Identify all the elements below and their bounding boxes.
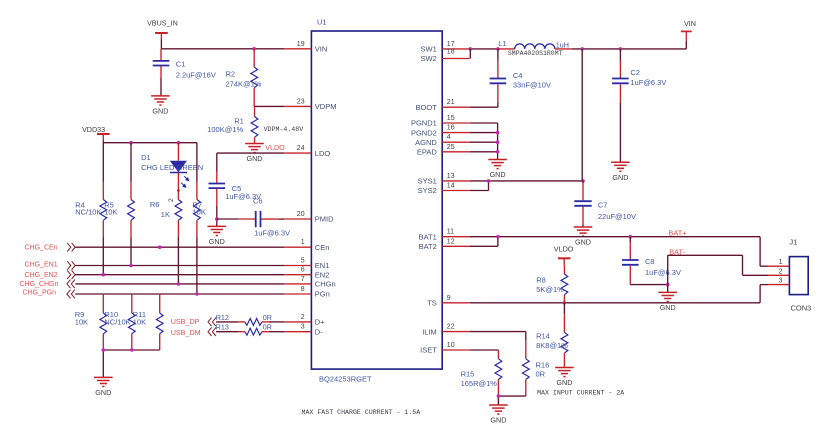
svg-text:NC/10K: NC/10K xyxy=(75,208,101,217)
svg-text:8K8@1%: 8K8@1% xyxy=(536,341,568,350)
net label BAT+ xyxy=(668,228,686,237)
node junction AGND xyxy=(496,140,500,144)
pin 6 EN2 of U1 xyxy=(284,267,329,280)
note MAX INPUT CURRENT xyxy=(537,390,624,397)
svg-text:CHG_CHGn: CHG_CHGn xyxy=(19,281,58,288)
svg-text:14: 14 xyxy=(447,183,455,190)
power symbol VDD33 xyxy=(82,125,110,141)
svg-text:R14: R14 xyxy=(536,332,550,341)
svg-text:18: 18 xyxy=(447,49,455,56)
pin 2 D+ of U1 xyxy=(284,314,325,327)
node junction SYS/C7 xyxy=(581,179,585,183)
svg-text:C4: C4 xyxy=(513,71,523,80)
svg-text:2: 2 xyxy=(779,268,783,275)
svg-text:R12: R12 xyxy=(216,313,229,322)
node junction PGn/R7 xyxy=(195,292,199,296)
svg-text:L1: L1 xyxy=(498,39,506,48)
svg-text:U1: U1 xyxy=(317,18,327,27)
svg-text:7: 7 xyxy=(301,276,305,283)
svg-text:SMPA4020S1R0MT: SMPA4020S1R0MT xyxy=(508,50,563,57)
ground under R14 xyxy=(555,368,574,388)
svg-text:274K@1%: 274K@1% xyxy=(226,79,262,88)
power symbol VLDO above R8 xyxy=(554,245,574,265)
resistor R9 10K pull-down xyxy=(75,294,107,350)
capacitor C5 1uF@6.3V xyxy=(209,172,262,227)
svg-text:D-: D- xyxy=(315,327,323,336)
svg-text:22: 22 xyxy=(447,324,455,331)
svg-text:GND: GND xyxy=(575,238,591,247)
node junction C8/BAT-/GND xyxy=(666,283,670,287)
pin 18 SW2 of U1 xyxy=(421,49,470,64)
wire VSYS rail down from L1 node xyxy=(581,49,583,181)
capacitor C8 1uF@6.3V xyxy=(622,237,681,285)
capacitor C7 22uF@10V xyxy=(574,181,636,227)
svg-text:9: 9 xyxy=(447,295,451,302)
power symbol VIN xyxy=(681,19,696,41)
svg-text:0R: 0R xyxy=(263,313,272,322)
svg-text:17: 17 xyxy=(447,41,455,48)
svg-text:J1: J1 xyxy=(789,238,797,247)
svg-text:CON3: CON3 xyxy=(791,303,812,312)
svg-text:VLDO: VLDO xyxy=(265,143,285,152)
svg-text:GND: GND xyxy=(490,170,506,179)
svg-text:3: 3 xyxy=(779,278,783,285)
node junction L1/C4 xyxy=(496,47,500,51)
svg-text:22uF@10V: 22uF@10V xyxy=(598,212,636,221)
pin 1 of J1 xyxy=(768,259,789,266)
svg-text:100K@1%: 100K@1% xyxy=(207,125,243,134)
node junction rail/C7 branch xyxy=(580,47,584,51)
connector J1 CON3 xyxy=(789,238,811,313)
svg-text:MAX INPUT CURRENT - 2A: MAX INPUT CURRENT - 2A xyxy=(537,390,624,397)
svg-text:SYS2: SYS2 xyxy=(418,186,437,195)
svg-text:C8: C8 xyxy=(645,257,655,266)
svg-text:USB_DP: USB_DP xyxy=(171,317,200,326)
pin 23 VDPM of U1 xyxy=(284,98,336,111)
wire VBUS_IN rail to VIN pin xyxy=(161,40,284,49)
pin 16 PGND2 of U1 xyxy=(411,125,470,138)
svg-text:GND: GND xyxy=(152,107,168,116)
svg-text:EN2: EN2 xyxy=(315,270,330,279)
pin 8 PGn of U1 xyxy=(284,286,330,299)
wire R15/R16 common to ground xyxy=(498,396,525,405)
wire pull-down common to ground xyxy=(103,350,159,377)
svg-text:BQ24253RGET: BQ24253RGET xyxy=(319,374,372,383)
pin 2 label of D1 xyxy=(168,198,175,202)
svg-text:1K: 1K xyxy=(161,210,170,219)
svg-text:GND: GND xyxy=(247,154,263,163)
resistor R16 0R xyxy=(522,341,549,396)
svg-text:0R: 0R xyxy=(536,370,546,379)
node junction CEn/R11 xyxy=(158,245,162,249)
svg-text:EN1: EN1 xyxy=(315,261,330,270)
node junction EN2/R4 xyxy=(102,273,106,277)
svg-text:R16: R16 xyxy=(536,361,550,370)
svg-text:CHG_PGn: CHG_PGn xyxy=(23,289,57,296)
svg-text:10K: 10K xyxy=(104,208,117,217)
op-amp U1 charger IC BQ24253RGET body xyxy=(311,18,442,384)
node junction EN1/R5 xyxy=(129,264,133,268)
svg-text:10K: 10K xyxy=(133,317,146,326)
svg-text:3: 3 xyxy=(301,324,305,331)
svg-text:R13: R13 xyxy=(216,322,229,331)
node junction C5/C6/GND xyxy=(215,217,219,221)
svg-text:R2: R2 xyxy=(226,69,236,78)
pin 3 of J1 xyxy=(768,278,789,285)
resistor R15 165R@1% xyxy=(461,359,502,396)
resistor R10 NC/10K pull-down xyxy=(104,294,135,350)
resistor R8 5K@1% xyxy=(536,265,568,303)
svg-text:GND: GND xyxy=(556,378,572,387)
resistor R1 100K@1% xyxy=(207,106,258,143)
pin 19 VIN of U1 xyxy=(284,41,327,54)
svg-text:BAT+: BAT+ xyxy=(668,228,686,237)
svg-text:19: 19 xyxy=(297,41,305,48)
pin 1 CEn of U1 xyxy=(284,239,329,252)
node junction BAT1/BAT2 xyxy=(496,235,500,239)
svg-text:VLDO: VLDO xyxy=(554,245,574,254)
svg-text:TS: TS xyxy=(427,299,437,308)
svg-text:ISET: ISET xyxy=(420,346,437,355)
svg-text:SYS1: SYS1 xyxy=(418,177,437,186)
svg-text:GND: GND xyxy=(612,173,628,182)
node junction EPAD xyxy=(496,150,500,154)
wire TS net to J1 pin3 xyxy=(470,285,768,303)
pin 13 SYS1 of U1 xyxy=(418,173,470,186)
ground under pull-downs xyxy=(94,377,113,397)
resistor R6 1K under LED xyxy=(150,173,182,284)
svg-text:16: 16 xyxy=(447,125,455,132)
svg-text:CHGn: CHGn xyxy=(315,280,336,289)
svg-text:2.2uF@16V: 2.2uF@16V xyxy=(176,71,216,80)
svg-text:GND: GND xyxy=(95,388,111,397)
svg-text:SW1: SW1 xyxy=(421,45,437,54)
pin 11 BAT1 of U1 xyxy=(419,229,470,242)
svg-text:VDPM: VDPM xyxy=(315,102,337,111)
resistor R2 274K@1% xyxy=(226,49,262,107)
wire BAT- to connector xyxy=(668,255,768,284)
svg-text:R6: R6 xyxy=(150,200,160,209)
net label VLDO red at LDO pin xyxy=(265,143,285,152)
svg-text:CHG_CEn: CHG_CEn xyxy=(25,245,58,252)
svg-text:20: 20 xyxy=(297,211,305,218)
svg-text:BAT1: BAT1 xyxy=(419,232,437,241)
wire VDD33 rail xyxy=(103,141,197,143)
pin 20 PMID of U1 xyxy=(284,211,334,224)
node junction TS/R8/R14 xyxy=(563,301,567,305)
wire PGn net xyxy=(75,293,284,295)
ground under C2 xyxy=(611,162,630,182)
svg-text:5K@1%: 5K@1% xyxy=(536,285,564,294)
svg-text:VDD33: VDD33 xyxy=(82,125,105,134)
capacitor C1 2.2uF@16V xyxy=(153,49,216,96)
pin 3 D- of U1 xyxy=(284,324,323,337)
svg-text:1uF@6.3V: 1uF@6.3V xyxy=(630,78,666,87)
svg-text:CHG LED GREEN: CHG LED GREEN xyxy=(141,163,203,172)
svg-text:C1: C1 xyxy=(176,60,186,69)
svg-text:165R@1%: 165R@1% xyxy=(461,379,498,388)
svg-text:23: 23 xyxy=(297,98,305,105)
svg-text:VIN: VIN xyxy=(315,45,328,54)
svg-text:21: 21 xyxy=(447,99,455,106)
pin 17 SW1 of U1 xyxy=(421,41,470,54)
svg-text:EPAD: EPAD xyxy=(417,148,437,157)
svg-text:AGND: AGND xyxy=(415,138,437,147)
node junction R9/common xyxy=(102,348,106,352)
svg-text:15: 15 xyxy=(447,115,455,122)
svg-text:8: 8 xyxy=(301,286,305,293)
svg-text:D+: D+ xyxy=(315,318,325,327)
node junction SYS1/SYS2 xyxy=(487,179,491,183)
node junction PGND2 xyxy=(496,131,500,135)
node junction R15/R16 xyxy=(497,394,501,398)
off-page connector USB_DP xyxy=(171,317,216,326)
wire CHGn net xyxy=(75,283,284,285)
wire VDPM pin to R1/R2 node xyxy=(254,105,284,107)
off-page connector USB_DM xyxy=(171,327,216,336)
svg-text:NC/10K: NC/10K xyxy=(104,317,130,326)
svg-text:11: 11 xyxy=(447,229,454,236)
capacitor C4 33nF@10V bootstrap xyxy=(490,49,551,107)
svg-text:VDPM-4.48V: VDPM-4.48V xyxy=(264,126,304,133)
wire EN1 net xyxy=(75,265,284,267)
ground under PGND common xyxy=(488,160,507,180)
off-page connector CHG_EN1 xyxy=(25,261,76,270)
svg-text:USB_DM: USB_DM xyxy=(171,328,201,337)
pin 9 TS of U1 xyxy=(427,295,469,308)
svg-text:C7: C7 xyxy=(598,200,608,209)
wire SW2 up to SW1 xyxy=(469,49,471,59)
power symbol VBUS_IN xyxy=(147,19,178,40)
svg-text:ILIM: ILIM xyxy=(422,327,437,336)
off-page connector CHG_PGn xyxy=(23,289,75,298)
resistor R7 10K pull-up xyxy=(193,143,206,294)
svg-text:5: 5 xyxy=(301,258,305,265)
svg-text:1uF@6.3V: 1uF@6.3V xyxy=(645,268,681,277)
off-page connector CHG_EN2 xyxy=(25,270,76,279)
pin 24 LDO of U1 xyxy=(284,145,330,158)
pin 2 of J1 xyxy=(768,268,789,275)
value label VDPM-4.48V xyxy=(264,126,304,133)
svg-text:BOOT: BOOT xyxy=(416,103,438,112)
svg-text:CHG_EN2: CHG_EN2 xyxy=(25,272,58,279)
pin 25 EPAD of U1 xyxy=(417,144,470,157)
wire BOOT to C4 xyxy=(470,106,498,108)
ground under C7 xyxy=(574,227,593,247)
wire SW1 to L1 xyxy=(470,48,498,50)
wire EN2 net xyxy=(75,274,284,276)
svg-text:6: 6 xyxy=(301,267,305,274)
svg-text:PGND2: PGND2 xyxy=(411,128,437,137)
svg-text:BAT-: BAT- xyxy=(669,247,685,256)
svg-text:D1: D1 xyxy=(141,153,151,162)
svg-text:2: 2 xyxy=(168,198,175,202)
capacitor C2 1uF@6.3V xyxy=(612,49,666,162)
svg-text:10: 10 xyxy=(447,342,455,349)
svg-text:PGND1: PGND1 xyxy=(411,119,437,128)
node junction CHGn/R6 xyxy=(177,282,181,286)
note MAX FAST CHARGE CURRENT xyxy=(302,409,421,416)
node junction VBUS/R2 xyxy=(252,47,256,51)
pin 7 CHGn of U1 xyxy=(284,276,335,289)
ground under R15/R16 xyxy=(489,405,508,425)
ground under C8 xyxy=(658,285,677,312)
svg-text:BAT2: BAT2 xyxy=(419,242,437,251)
pin 22 ILIM of U1 xyxy=(422,324,469,337)
wire PGND1/PGND2/AGND/EPAD common xyxy=(470,123,498,160)
svg-text:4: 4 xyxy=(447,134,451,141)
svg-text:R8: R8 xyxy=(536,275,546,284)
svg-text:VBUS_IN: VBUS_IN xyxy=(147,19,178,28)
resistor R12 0R series D+ xyxy=(216,313,285,325)
svg-text:GND: GND xyxy=(660,303,676,312)
svg-text:C6: C6 xyxy=(253,196,263,205)
svg-text:GND: GND xyxy=(490,416,506,425)
svg-text:PMID: PMID xyxy=(315,215,334,224)
node junction R10/common xyxy=(130,348,134,352)
pin 21 BOOT of U1 xyxy=(416,99,470,112)
node junction D1 cathode / R6 xyxy=(177,189,180,192)
svg-text:CHG_EN1: CHG_EN1 xyxy=(25,262,58,269)
wire ILIM to R16 xyxy=(470,332,526,341)
wire SYS1/SYS2 join xyxy=(470,181,583,191)
svg-text:MAX FAST CHARGE CURRENT - 1.5A: MAX FAST CHARGE CURRENT - 1.5A xyxy=(302,409,421,416)
wire L1 to VIN power xyxy=(572,41,686,49)
LED D1 CHG LED GREEN xyxy=(141,143,203,188)
wire CEn net xyxy=(75,246,284,248)
svg-text:SW2: SW2 xyxy=(421,54,437,63)
svg-text:1: 1 xyxy=(301,239,305,246)
svg-text:1uF@6.3V: 1uF@6.3V xyxy=(254,228,290,237)
resistor R4 NC/10K pull-up xyxy=(75,143,107,275)
svg-text:LDO: LDO xyxy=(315,149,331,158)
pin 4 AGND of U1 xyxy=(415,134,470,147)
wire BAT1/BAT2 to battery connector xyxy=(470,237,768,267)
svg-text:25: 25 xyxy=(447,144,455,151)
svg-text:12: 12 xyxy=(447,238,455,245)
svg-text:13: 13 xyxy=(447,173,455,180)
node junction rail/D1 xyxy=(177,141,181,145)
pin 15 PGND1 of U1 xyxy=(411,115,470,128)
wire ISET to R15 xyxy=(470,350,499,359)
svg-text:0R: 0R xyxy=(263,322,272,331)
svg-text:24: 24 xyxy=(297,145,305,152)
ground under C1 xyxy=(151,96,170,116)
svg-text:1: 1 xyxy=(779,259,783,266)
ground under C5 xyxy=(208,226,227,246)
svg-text:R15: R15 xyxy=(461,370,475,379)
inductor L1 1uH SMPA4020S1R0MT xyxy=(498,39,572,57)
ground under R1 xyxy=(245,144,264,164)
svg-text:1uH: 1uH xyxy=(556,40,569,49)
wire LDO pin to C5 xyxy=(217,153,284,171)
svg-text:PGn: PGn xyxy=(315,290,330,299)
resistor R14 8K8@1% xyxy=(536,303,568,368)
pin 10 ISET of U1 xyxy=(420,342,470,355)
svg-text:R1: R1 xyxy=(234,116,244,125)
node junction SW1/SW2 xyxy=(469,47,473,51)
pin 14 SYS2 of U1 xyxy=(418,183,470,196)
resistor R11 10K pull-down xyxy=(133,294,163,350)
svg-text:VIN: VIN xyxy=(684,19,696,28)
net label BAT- xyxy=(669,247,685,256)
svg-text:10K: 10K xyxy=(75,317,88,326)
resistor R5 10K pull-up xyxy=(104,143,134,266)
svg-text:CEn: CEn xyxy=(315,243,330,252)
node junction BAT+/C8 xyxy=(629,235,633,239)
svg-text:33nF@10V: 33nF@10V xyxy=(513,80,551,89)
svg-text:GND: GND xyxy=(209,237,225,246)
svg-text:10K: 10K xyxy=(193,208,206,217)
svg-text:C2: C2 xyxy=(630,68,640,77)
resistor R13 0R series D- xyxy=(216,322,285,335)
off-page connector CHG_CEn xyxy=(25,243,76,252)
svg-text:2: 2 xyxy=(301,314,305,321)
node junction rail/R5 xyxy=(129,141,133,145)
capacitor C6 1uF@6.3V on PMID xyxy=(217,196,290,237)
pin 5 EN1 of U1 xyxy=(284,258,329,271)
node junction rail/C2 xyxy=(619,47,623,51)
off-page connector CHG_CHGn xyxy=(19,280,74,289)
pin 12 BAT2 of U1 xyxy=(419,238,470,251)
